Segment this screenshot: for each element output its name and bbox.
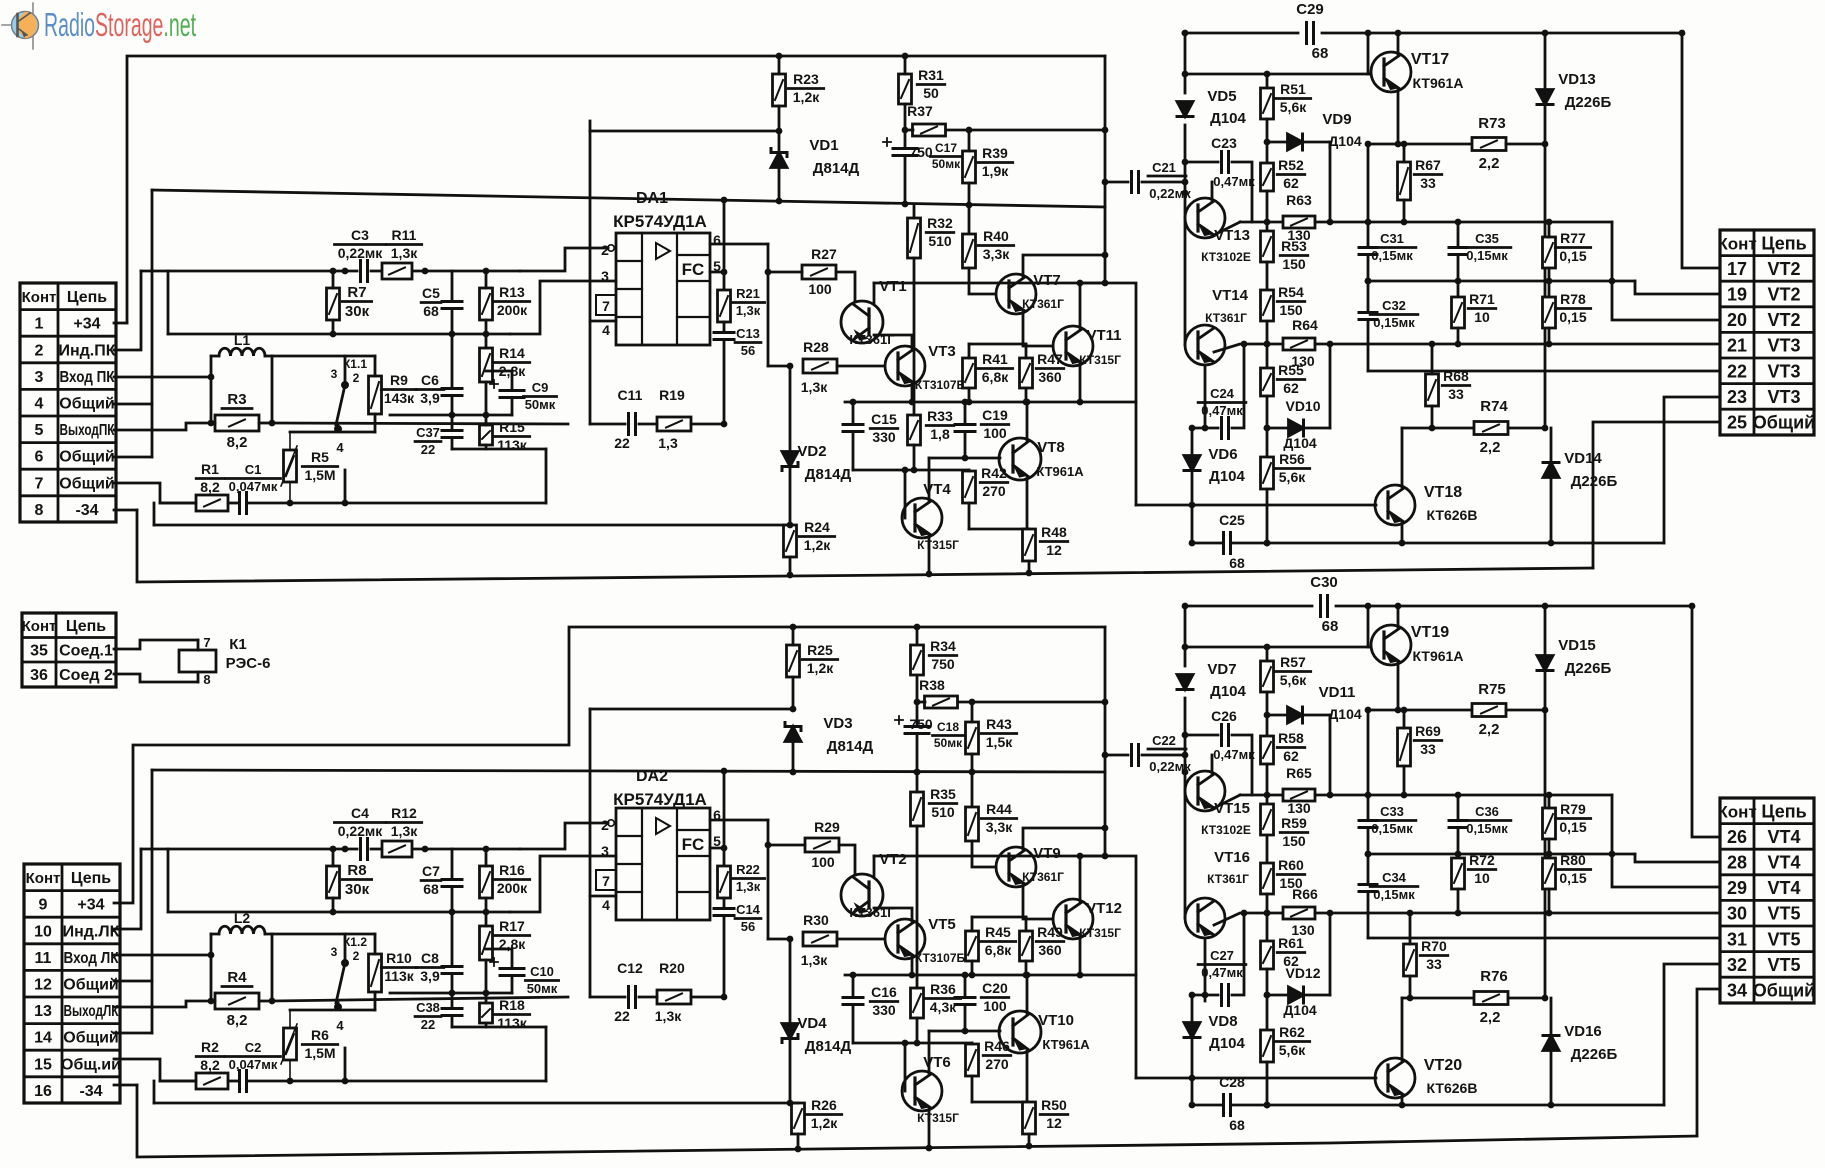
wire x1105 vertical bottom — [1104, 627, 1107, 856]
svg-text:VT14: VT14 — [1212, 287, 1249, 304]
svg-text:R71: R71 — [1469, 291, 1495, 307]
svg-text:Общ.ий: Общ.ий — [61, 1056, 121, 1073]
diode VD6 Д104 — [1184, 428, 1246, 543]
svg-text:VD8: VD8 — [1208, 1013, 1237, 1030]
resistor R37 750 — [907, 103, 945, 160]
wire y525 line — [154, 524, 790, 527]
svg-text:0,47мк: 0,47мк — [1213, 174, 1255, 189]
svg-text:1,3к: 1,3к — [801, 379, 828, 395]
node R38 junctions — [914, 699, 1109, 706]
svg-text:R41: R41 — [982, 351, 1008, 367]
svg-text:26: 26 — [1727, 827, 1747, 847]
wire C21 row b — [1142, 181, 1185, 184]
svg-text:2,2: 2,2 — [1480, 1009, 1501, 1026]
transistor VT8 КТ961А — [999, 438, 1084, 480]
svg-text:C15: C15 — [871, 411, 897, 427]
wire pin4 stub bottom — [590, 895, 616, 898]
wire C23 row b — [1232, 162, 1252, 222]
svg-text:200к: 200к — [497, 302, 528, 318]
svg-text:2: 2 — [353, 949, 360, 963]
svg-text:C32: C32 — [1382, 298, 1406, 313]
wire input row y271 — [141, 270, 357, 273]
svg-text:3: 3 — [35, 369, 44, 386]
svg-text:113к: 113к — [497, 1015, 528, 1031]
capacitor C23 0,47мк — [1211, 135, 1255, 189]
svg-text:КТ3107Б: КТ3107Б — [915, 951, 966, 965]
wire VT9 collector up — [1023, 828, 1105, 849]
svg-text:КТ315Г: КТ315Г — [1079, 926, 1121, 940]
svg-text:36: 36 — [30, 667, 48, 684]
wire pin5 stub bottom — [710, 847, 724, 850]
connector table X5 pins 26-34 (Конт/Цепь) — [1717, 798, 1815, 1003]
svg-text:VT18: VT18 — [1424, 484, 1462, 501]
svg-text:R9: R9 — [390, 372, 408, 388]
svg-text:R37: R37 — [907, 103, 933, 119]
svg-text:100: 100 — [983, 425, 1007, 441]
capacitor C16 330 — [843, 975, 898, 1043]
svg-text:R20: R20 — [659, 960, 685, 976]
svg-text:R29: R29 — [814, 819, 840, 835]
resistor R43 1,5к — [966, 702, 1017, 807]
svg-text:8: 8 — [203, 672, 210, 687]
resistor R41 6,8к — [963, 344, 1013, 402]
transistor VT12 КТ315Г — [1053, 899, 1122, 940]
svg-text:22: 22 — [1727, 361, 1747, 381]
wire VT16 emitter row — [1214, 913, 1283, 925]
svg-text:0,15мк: 0,15мк — [1373, 315, 1415, 330]
wire x1612 down bottom — [1612, 795, 1718, 887]
resistor R62 5,6к — [1261, 1024, 1310, 1105]
svg-text:1,3: 1,3 — [658, 435, 678, 451]
svg-text:1,3к: 1,3к — [391, 245, 418, 261]
svg-text:R70: R70 — [1421, 938, 1447, 954]
wire y854 row — [1368, 853, 1612, 856]
svg-text:КТ626В: КТ626В — [1427, 1080, 1478, 1096]
svg-text:R32: R32 — [927, 215, 953, 231]
wire feedback row y424 b — [639, 423, 657, 426]
wire VD11 drop x1330 — [1329, 715, 1332, 795]
svg-text:R57: R57 — [1280, 654, 1306, 670]
transistor VT3 КТ3107Б — [885, 343, 966, 392]
wire C21 row — [1105, 181, 1128, 184]
svg-text:Д104: Д104 — [1283, 1002, 1317, 1018]
resistor R63 130 — [1283, 192, 1315, 243]
svg-text:VT10: VT10 — [1038, 1012, 1074, 1029]
svg-text:270: 270 — [985, 1056, 1009, 1072]
svg-text:25: 25 — [1727, 412, 1747, 432]
node R3 nodes — [208, 374, 276, 427]
resistor R1 8,2 — [196, 461, 228, 511]
wire R27 row — [768, 271, 802, 274]
resistor R10 113к — [369, 934, 417, 1010]
wire C27 right rise — [1232, 913, 1244, 995]
node R27 left — [765, 269, 772, 276]
connector table X3 pins 9-16 (Конт/Цепь) — [24, 864, 121, 1103]
wire pin3 feed — [510, 281, 616, 334]
svg-text:VT5: VT5 — [1767, 929, 1800, 949]
svg-text:VD14: VD14 — [1564, 450, 1602, 467]
node R50 bottom — [1026, 1143, 1033, 1150]
wire R75 left drop — [1367, 710, 1370, 795]
svg-text:C19: C19 — [982, 407, 1008, 423]
resistor R76 2,2 — [1474, 968, 1508, 1026]
wire VT19 collector up — [1397, 606, 1400, 627]
wire row y1102 — [972, 1101, 1029, 1104]
wire y281 row — [1368, 280, 1612, 283]
wire R30 row — [768, 938, 787, 941]
wire ground row y1081 — [160, 1080, 196, 1083]
wire bottom main signal line — [152, 770, 1105, 772]
node R57 top — [1264, 644, 1271, 651]
wire VT18 base row — [1136, 504, 1376, 507]
svg-text:Д104: Д104 — [1328, 706, 1362, 722]
resistor R59 150 — [1261, 804, 1308, 863]
wire feedback row y997 — [590, 996, 625, 999]
capacitor C1 0,047мк — [226, 462, 281, 514]
wire C23 row — [1185, 161, 1218, 164]
svg-text:750: 750 — [931, 656, 955, 672]
capacitor C13 56 — [714, 322, 761, 424]
svg-text:Конт: Конт — [22, 289, 57, 306]
svg-text:R26: R26 — [811, 1097, 837, 1113]
svg-text:Д104: Д104 — [1209, 468, 1245, 485]
resistor R16 200к — [480, 849, 530, 912]
node R34 top — [914, 624, 921, 631]
svg-text:1,8: 1,8 — [930, 426, 950, 442]
svg-text:1,5М: 1,5М — [304, 1045, 335, 1061]
resistor R38 750 — [909, 677, 957, 732]
svg-text:C33: C33 — [1380, 804, 1404, 819]
svg-text:КТ961А: КТ961А — [1042, 1037, 1090, 1052]
svg-text:Д104: Д104 — [1210, 110, 1246, 127]
svg-text:0,15мк: 0,15мк — [1466, 248, 1508, 263]
svg-text:50мк: 50мк — [525, 397, 556, 412]
svg-text:4: 4 — [336, 1018, 344, 1033]
svg-text:R7: R7 — [347, 284, 366, 301]
svg-text:VT7: VT7 — [1033, 272, 1061, 289]
node VT9 collector join — [1102, 825, 1109, 832]
svg-text:VT5: VT5 — [928, 916, 956, 933]
diode VD8 Д104 — [1184, 995, 1246, 1105]
svg-text:DA2: DA2 — [636, 768, 668, 785]
svg-text:R52: R52 — [1278, 157, 1304, 173]
svg-text:4: 4 — [336, 440, 344, 455]
capacitor C32 0,15мк — [1359, 281, 1418, 371]
svg-text:510: 510 — [931, 804, 955, 820]
svg-text:КТ361Г: КТ361Г — [1022, 870, 1064, 884]
svg-text:R40: R40 — [983, 228, 1009, 244]
capacitor C31 0,15мк — [1359, 222, 1416, 281]
wire x724 feedback vertical bottom — [723, 771, 726, 866]
svg-text:C14: C14 — [736, 902, 761, 917]
wire VT20 base row — [1136, 1077, 1376, 1080]
svg-text:C20: C20 — [982, 980, 1008, 996]
resistor R55 62 — [1261, 362, 1305, 457]
resistor R79 0,15 — [1543, 795, 1591, 858]
wire C28 row to pin32 — [1664, 964, 1718, 1105]
wire R29 to VT2 — [839, 845, 855, 874]
svg-text:200к: 200к — [497, 880, 528, 896]
svg-text:4: 4 — [602, 322, 610, 338]
svg-text:R27: R27 — [811, 246, 837, 262]
wire R75 row — [1368, 709, 1471, 712]
capacitor C22 0,22мк — [1132, 733, 1192, 774]
diode VD5 Д104 — [1177, 88, 1247, 127]
wire C24 row — [1192, 427, 1218, 430]
resistor R8 30к — [327, 849, 372, 912]
wire C22 row — [1105, 754, 1128, 757]
svg-text:0,47мк: 0,47мк — [1201, 403, 1243, 418]
svg-text:3,3к: 3,3к — [986, 819, 1013, 835]
svg-text:R3: R3 — [227, 391, 246, 408]
resistor R50 12 — [1023, 1097, 1068, 1146]
svg-text:5,6к: 5,6к — [1279, 469, 1306, 485]
svg-text:C4: C4 — [351, 805, 369, 821]
svg-text:C21: C21 — [1152, 160, 1176, 175]
resistor R69 33 — [1398, 710, 1442, 795]
svg-text:2: 2 — [353, 371, 360, 385]
transistor VT5 КТ3107Б — [885, 916, 966, 965]
svg-text:-34: -34 — [75, 502, 98, 519]
svg-text:Д104: Д104 — [1210, 683, 1246, 700]
wire L1 left node — [210, 356, 213, 423]
svg-text:C8: C8 — [421, 950, 439, 966]
node y854 joins b — [1365, 851, 1553, 858]
resistor R58 62 — [1261, 730, 1305, 804]
resistor R22 1,3к — [718, 862, 765, 898]
wire x546 drop — [545, 449, 548, 503]
svg-text:C16: C16 — [871, 984, 897, 1000]
transistor VT2 КТ361Г — [841, 851, 907, 920]
node VD4 top — [787, 936, 794, 943]
resistor R7 30к — [327, 271, 372, 334]
resistor R70 33 — [1404, 913, 1448, 998]
svg-text:33: 33 — [1420, 175, 1436, 191]
node top line joins — [1365, 30, 1402, 37]
svg-text:VD10: VD10 — [1285, 398, 1320, 414]
resistor R18 113к — [480, 993, 530, 1031]
wire VT8 collector up — [1026, 402, 1029, 440]
wire table pin11 to L2 node — [114, 954, 211, 957]
svg-text:143к: 143к — [384, 390, 415, 406]
svg-text:КТ961А: КТ961А — [1413, 75, 1464, 91]
svg-text:510: 510 — [928, 233, 952, 249]
svg-text:22: 22 — [614, 435, 630, 451]
svg-text:29: 29 — [1727, 878, 1747, 898]
wire rail y912 — [168, 911, 510, 914]
capacitor C7 68 — [421, 849, 462, 912]
resistor R46 270 — [966, 1038, 1011, 1102]
resistor R9 143к — [369, 356, 417, 432]
node C26 left — [1182, 732, 1189, 739]
wire C9 top stub — [486, 370, 512, 373]
wire R37 row — [905, 129, 913, 132]
svg-text:VT6: VT6 — [923, 1054, 951, 1071]
svg-text:VD11: VD11 — [1319, 684, 1356, 701]
svg-text:VT20: VT20 — [1424, 1057, 1462, 1074]
wire pin6 vertical x768 bottom — [767, 820, 770, 939]
op-amp DA2 КР574УД1А — [596, 807, 721, 920]
wire R73 row — [1368, 143, 1471, 146]
capacitor C28 68 — [1219, 1074, 1245, 1133]
node x1545 R76 — [1542, 707, 1549, 1002]
capacitor C37 22 — [415, 415, 462, 457]
svg-text:30: 30 — [1727, 904, 1747, 924]
wire bus to pin25 — [1593, 422, 1718, 568]
capacitor C27 0,47мк — [1198, 948, 1246, 1006]
transistor VT15 КТ3102Е — [1185, 771, 1251, 837]
wire ground row y1081 c — [247, 1080, 546, 1083]
svg-text:R15: R15 — [499, 419, 525, 435]
node VT3 emitter bus — [909, 399, 916, 406]
resistor R68 33 — [1426, 344, 1470, 428]
wire y74 base feed — [1185, 73, 1368, 76]
svg-text:62: 62 — [1283, 175, 1299, 191]
wire feedback row y424 c — [691, 423, 724, 426]
svg-text:1,3к: 1,3к — [655, 1008, 682, 1024]
svg-text:22: 22 — [421, 1017, 435, 1032]
svg-text:23: 23 — [1727, 387, 1747, 407]
resistor R15 113к — [480, 415, 530, 453]
wire VD10 rise x1330 — [1329, 344, 1332, 428]
wire x152 drop bottom — [151, 770, 154, 1033]
transistor VT6 КТ315Г — [902, 1054, 959, 1125]
svg-text:C18: C18 — [937, 720, 959, 734]
wire VT11 emitter down — [1079, 364, 1082, 402]
svg-text:C2: C2 — [245, 1040, 262, 1055]
resistor R48 12 — [1023, 524, 1068, 574]
wire table pin8 to -34 bus — [114, 509, 137, 512]
svg-text:Вход ПК: Вход ПК — [60, 369, 115, 386]
wire pin6 out — [710, 243, 768, 246]
svg-text:FC: FC — [682, 835, 705, 854]
wire R3 row — [211, 422, 215, 425]
node VT6 emitter bus — [926, 1145, 933, 1152]
resistor R77 0,15 — [1543, 222, 1591, 297]
wire R65 row to x1612 — [1315, 794, 1612, 797]
wire x1612-y854 link — [1612, 853, 1635, 856]
resistor R29 100 — [805, 819, 840, 870]
wire table pin5 to R3 row — [114, 423, 211, 430]
wire +34 reg row y131 — [590, 130, 779, 133]
svg-text:0,047мк: 0,047мк — [229, 479, 278, 494]
wire R37 row b — [946, 129, 1105, 132]
wire table pin14 to common — [114, 1032, 152, 1035]
svg-text:10: 10 — [1474, 870, 1490, 886]
svg-text:R38: R38 — [919, 677, 945, 693]
wire R3 row b — [259, 422, 272, 425]
node C25 row joins — [1264, 540, 1271, 547]
svg-text:C1: C1 — [245, 462, 262, 477]
svg-text:Конт: Конт — [26, 870, 61, 887]
capacitor C6 3,9 — [416, 334, 462, 415]
wire y854 to pin28 — [1635, 854, 1718, 862]
wire table pin6 to common — [114, 456, 152, 459]
svg-text:R80: R80 — [1560, 852, 1586, 868]
resistor R34 750 — [911, 627, 957, 702]
svg-text:R8: R8 — [347, 862, 366, 879]
wire y525 left drop — [153, 503, 156, 525]
wire feedback row y997 c — [691, 996, 724, 999]
svg-text:113к: 113к — [384, 968, 415, 984]
wire VT20 collector — [1401, 998, 1404, 1060]
svg-text:КТ315Г: КТ315Г — [917, 1111, 959, 1125]
node y222 joins — [1365, 219, 1553, 226]
svg-text:VT4: VT4 — [1767, 852, 1800, 872]
svg-text:Д104: Д104 — [1209, 1035, 1245, 1052]
wire pin7+4 feed column bottom — [589, 709, 592, 997]
node R39 top — [966, 127, 973, 134]
wire feedback row y997 b — [639, 996, 657, 999]
wire y647 base feed — [1185, 646, 1368, 649]
svg-text:R35: R35 — [930, 786, 956, 802]
svg-text:R63: R63 — [1286, 192, 1312, 208]
resistor R42 270 — [963, 465, 1008, 529]
svg-text:100: 100 — [811, 854, 835, 870]
wire R66 row to pin30 — [1315, 912, 1718, 915]
svg-text:8,2: 8,2 — [200, 1057, 220, 1073]
svg-text:R23: R23 — [793, 71, 819, 87]
connector table X4 pins 17-25 (Конт/Цепь) — [1717, 230, 1815, 435]
svg-text:R45: R45 — [985, 924, 1011, 940]
svg-text:7: 7 — [602, 873, 610, 889]
svg-text:VT4: VT4 — [1767, 878, 1800, 898]
svg-text:68: 68 — [1312, 45, 1329, 62]
node row20 branch — [1609, 278, 1616, 285]
node pin5 join — [721, 269, 728, 276]
svg-text:270: 270 — [982, 483, 1006, 499]
svg-text:C38: C38 — [416, 1000, 440, 1015]
wire +34 reg tick — [589, 121, 592, 131]
wire R30 to VT5 base — [837, 938, 884, 941]
wire VT13 collector — [1211, 182, 1214, 200]
svg-text:100: 100 — [983, 998, 1007, 1014]
svg-text:C22: C22 — [1152, 733, 1176, 748]
svg-text:Вход ЛК: Вход ЛК — [64, 950, 119, 967]
wire switch bottom row b — [290, 1009, 375, 1012]
svg-text:C36: C36 — [1475, 804, 1499, 819]
wire R73 to VD13 col — [1506, 143, 1545, 146]
wire VT4 base drop — [904, 470, 907, 518]
node row29 branch — [1609, 851, 1616, 858]
svg-text:VT2: VT2 — [1767, 310, 1800, 330]
wire table pin13 to R4 row — [114, 1001, 211, 1007]
wire switch bottom row — [290, 431, 375, 434]
wire top feedback line y33 — [1183, 32, 1298, 35]
wire x1545 long drop bottom — [1544, 710, 1547, 998]
node y283 joins — [1077, 280, 1109, 287]
diode VD12 Д104 — [1267, 965, 1330, 1018]
node R70 top — [1407, 910, 1414, 917]
svg-text:7: 7 — [602, 298, 610, 314]
node y1081 junctions — [287, 1078, 349, 1085]
svg-text:R4: R4 — [227, 969, 247, 986]
svg-text:50мк: 50мк — [527, 981, 558, 996]
node R4 nodes — [208, 952, 276, 1005]
node VD14 bottom — [1548, 540, 1555, 547]
wire ground row y503 c — [247, 502, 546, 505]
wire x1612 down — [1612, 222, 1718, 320]
svg-text:12: 12 — [1046, 1115, 1062, 1131]
wire R76 row — [1402, 997, 1475, 1000]
node VD10 ends — [1264, 341, 1334, 432]
wire VT15 collector — [1211, 755, 1214, 773]
wire VT10 collector up — [1026, 975, 1029, 1013]
resistor R75 2,2 — [1472, 681, 1506, 738]
wire VT10 emitter — [1026, 1051, 1029, 1102]
wire x1185 vertical chain bottom b — [1184, 698, 1187, 918]
wire pin2 feed bottom — [520, 823, 608, 849]
